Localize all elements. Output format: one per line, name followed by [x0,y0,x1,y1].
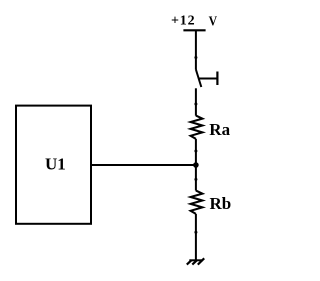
wire Ra to node [195,139,197,165]
switch actuator head [216,72,218,86]
wire switch to Ra [195,88,197,115]
resistor Ra [191,116,231,139]
svg-text:U1: U1 [45,155,66,174]
wire Rb to ground [195,214,197,260]
wire joint [194,56,197,59]
power rail +12 V supply bar [183,29,205,31]
wire joint [194,178,197,181]
svg-text:+12: +12 [171,14,195,29]
svg-text:Ra: Ra [209,120,230,139]
wire joint [194,150,197,153]
wire U1 output to node [91,164,196,166]
wire joint [194,231,197,234]
switch blade (normally-open pushbutton) [196,70,201,88]
svg-text:Rb: Rb [210,194,232,213]
node junction dot [193,162,199,168]
wire power bar to switch [195,30,197,69]
switch actuator shaft [198,78,217,80]
resistor Rb [191,191,232,214]
IC U1 [16,106,91,224]
wire node to Rb [195,165,197,191]
wire joint [194,103,197,106]
ground [187,258,204,264]
net label +12 V [171,14,217,30]
svg-text:V: V [209,15,218,30]
